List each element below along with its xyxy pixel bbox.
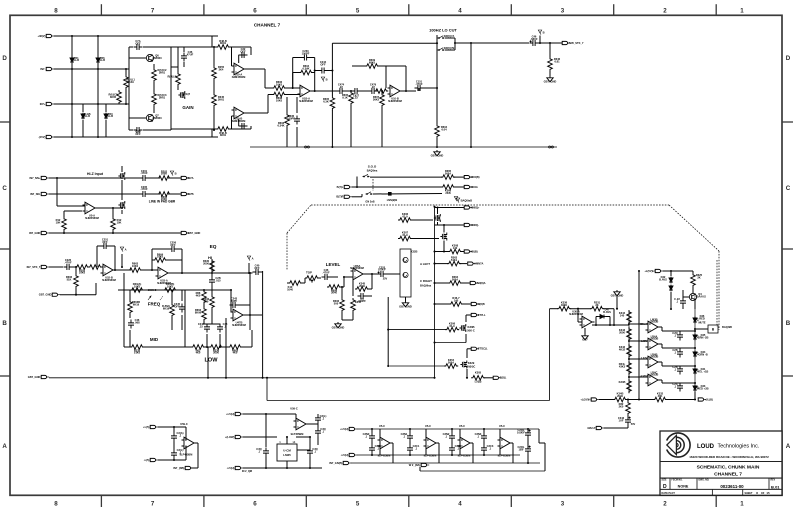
wire	[72, 266, 75, 268]
wire	[666, 399, 696, 401]
junction	[248, 272, 250, 274]
svg-text:GLB: GLB	[107, 114, 113, 118]
zone row labels right	[786, 55, 791, 450]
wire	[662, 382, 695, 384]
capacitor C236	[287, 114, 300, 125]
svg-text:6K19: 6K19	[133, 302, 140, 306]
svg-text:4K0: 4K0	[196, 293, 201, 297]
wire	[181, 315, 183, 330]
svg-text:10K0: 10K0	[276, 99, 283, 103]
wire	[436, 88, 438, 124]
capacitor C233	[301, 49, 310, 60]
wire	[472, 443, 474, 463]
svg-text:NJM4580M: NJM4580M	[569, 312, 583, 316]
wire	[411, 238, 439, 240]
svg-text:30PF: 30PF	[231, 299, 238, 303]
op-amp U10-A	[232, 63, 247, 79]
ground	[399, 301, 412, 309]
resistor K10	[287, 281, 302, 292]
wire	[243, 467, 322, 469]
svg-text:+(LOW): +(LOW)	[225, 435, 235, 439]
wire	[244, 68, 249, 70]
switch SOLO A	[363, 174, 370, 177]
wire	[185, 446, 187, 460]
svg-text:LM35: LM35	[283, 453, 291, 457]
connector IN7A	[181, 176, 193, 180]
net flag	[454, 197, 457, 202]
svg-text:2KB: 2KB	[445, 191, 450, 195]
wire	[249, 273, 251, 330]
capacitor C226	[64, 258, 73, 270]
wire	[129, 330, 131, 347]
capacitor C251	[101, 238, 110, 249]
title block fields	[662, 480, 781, 495]
junction	[249, 272, 251, 274]
wire	[679, 348, 681, 349]
connector IN7_STK_7	[27, 265, 50, 269]
svg-text:68K0: 68K0	[369, 60, 376, 64]
wire	[461, 282, 470, 284]
svg-text:.015: .015	[215, 278, 221, 282]
wire	[470, 442, 473, 444]
wire	[596, 316, 599, 318]
wire	[616, 296, 618, 309]
capacitor C3C0	[369, 444, 382, 454]
wire	[387, 297, 389, 366]
resistor R(U)L1	[124, 75, 136, 89]
wire	[670, 299, 672, 309]
wire	[152, 259, 154, 261]
wire	[310, 90, 338, 92]
junction	[309, 436, 311, 438]
wire	[249, 68, 265, 70]
wire	[101, 266, 103, 268]
diode D42	[659, 275, 673, 283]
junction	[114, 269, 116, 271]
svg-text:IN7_NN+: IN7_NN+	[30, 176, 41, 180]
svg-text:3K61: 3K61	[218, 97, 225, 101]
capacitor C3N1	[401, 432, 413, 442]
wire	[152, 248, 169, 250]
svg-text:GB7_GND: GB7_GND	[332, 326, 345, 330]
wire	[438, 443, 440, 463]
junction	[97, 103, 99, 105]
svg-text:EQ: EQ	[210, 244, 217, 250]
svg-text:OFF: OFF	[174, 304, 180, 308]
wire	[287, 282, 288, 284]
wire	[285, 94, 300, 96]
junction	[71, 103, 73, 105]
junction	[97, 68, 99, 70]
svg-text:+L(5V)H: +L(5V)H	[644, 269, 654, 273]
wire	[230, 128, 251, 130]
svg-text:OFF: OFF	[135, 42, 141, 46]
wire	[241, 346, 252, 348]
svg-text:LM33B: LM33B	[650, 337, 659, 341]
regulator U-CM LM35	[277, 441, 297, 461]
wire	[293, 57, 301, 59]
svg-text:GB7: GB7	[582, 338, 588, 342]
wire	[267, 95, 269, 114]
wire	[527, 428, 529, 431]
wire	[367, 295, 373, 297]
svg-text:1BV: 1BV	[518, 447, 523, 451]
wire	[148, 177, 160, 179]
wire	[177, 86, 179, 90]
resistor R330	[203, 259, 214, 273]
transistor	[459, 324, 465, 332]
svg-text:10K0: 10K0	[157, 255, 164, 259]
svg-text:U59-C: U59-C	[290, 407, 298, 411]
svg-text:N5(B): N5(B)	[471, 249, 478, 253]
svg-text:6: 6	[253, 500, 257, 507]
junction	[694, 347, 696, 349]
wire	[319, 277, 321, 279]
junction	[206, 346, 208, 348]
junction	[470, 146, 472, 148]
resistor R364	[448, 275, 462, 285]
capacitor C205	[140, 185, 149, 197]
ground	[431, 150, 444, 158]
wire	[123, 273, 125, 290]
wire	[694, 301, 696, 309]
svg-text:NJM4580M: NJM4580M	[388, 99, 402, 103]
op-amp LM3B	[646, 317, 661, 332]
diode D53	[104, 112, 113, 120]
wire	[185, 427, 187, 440]
junction	[213, 46, 215, 48]
wire	[306, 423, 318, 425]
title block frame	[660, 431, 782, 495]
resistor K306	[445, 322, 459, 332]
wire	[315, 70, 319, 72]
svg-text:1040: 1040	[287, 287, 293, 291]
svg-text:GB7_GND: GB7_GND	[28, 375, 41, 379]
svg-text:7: 7	[151, 500, 155, 507]
transistor	[434, 214, 440, 222]
wire	[287, 205, 311, 233]
connector GB7_GND	[39, 293, 61, 297]
svg-text:6.3K: 6.3K	[323, 99, 329, 103]
junction	[436, 42, 438, 44]
capacitor C3(A)	[171, 431, 184, 442]
wire	[293, 72, 299, 74]
wire	[230, 290, 232, 303]
junction	[405, 90, 407, 92]
wire	[471, 377, 473, 379]
zone column labels top	[54, 8, 744, 15]
wire	[71, 36, 73, 137]
svg-text:9LP455BM: 9LP455BM	[378, 455, 391, 458]
transistor Q(G)7	[178, 91, 190, 99]
svg-text:B: B	[543, 30, 545, 34]
resistor K345	[355, 282, 369, 292]
diode D45	[693, 333, 708, 340]
svg-text:GRN -B: GRN -B	[698, 352, 707, 356]
resistor K366	[441, 185, 455, 195]
svg-text:GB7_GND: GB7_GND	[399, 305, 412, 309]
svg-text:U5-C: U5-C	[459, 424, 465, 428]
svg-text:RED: RED	[699, 316, 705, 320]
resistor R68	[196, 290, 207, 304]
wire	[285, 87, 300, 89]
wire	[219, 334, 221, 347]
connector NN4(B)	[464, 175, 479, 179]
capacitor C43	[217, 322, 228, 333]
connector ST7(C)L	[471, 347, 488, 351]
wire	[168, 193, 181, 195]
wire	[592, 324, 629, 326]
wire	[143, 129, 171, 131]
wire	[238, 119, 240, 126]
svg-text:SIZE: SIZE	[662, 480, 667, 482]
wire	[112, 231, 114, 233]
connector +2L(B)	[698, 397, 713, 401]
wire output bus	[434, 207, 436, 378]
svg-text:10K: 10K	[117, 220, 122, 224]
wire	[211, 129, 213, 137]
resistor K332	[653, 392, 667, 402]
junction	[341, 286, 343, 288]
wire	[121, 254, 123, 267]
wire	[243, 314, 262, 316]
svg-text:AN5_STK_7: AN5_STK_7	[569, 41, 584, 45]
wire	[125, 89, 127, 104]
junction	[173, 426, 175, 428]
svg-text:Technologies Inc.: Technologies Inc.	[718, 444, 760, 450]
wire	[454, 186, 464, 188]
connector IN7_NN-	[30, 192, 49, 196]
connector IN7_GND	[29, 231, 49, 235]
svg-text:LNN(B)N: LNN(B)N	[387, 199, 398, 202]
svg-text:N(8)B: N(8)B	[478, 302, 485, 306]
wire	[692, 287, 694, 293]
wire	[423, 87, 437, 89]
svg-text:51K0: 51K0	[134, 351, 141, 355]
wire	[96, 246, 98, 267]
resistor R663	[228, 345, 242, 355]
wire	[262, 271, 263, 273]
op-amp U5-C	[378, 424, 393, 449]
wire	[286, 233, 288, 270]
wire	[207, 347, 209, 378]
svg-text:+L(5): +L(5)	[143, 425, 149, 429]
transistor	[118, 172, 124, 180]
op-amp U34A	[646, 334, 661, 349]
resistor	[374, 89, 388, 94]
connector C(8)L	[493, 376, 507, 380]
capacitor C3(L)	[171, 448, 183, 459]
diode D41	[693, 367, 708, 374]
svg-text:100UF: 100UF	[378, 268, 386, 272]
svg-text:IN7_NN-: IN7_NN-	[30, 192, 40, 196]
wire	[355, 288, 356, 290]
transistor	[460, 361, 466, 369]
svg-text:D: D	[786, 55, 791, 62]
resistor K305	[471, 370, 485, 380]
resistor R664	[153, 252, 167, 262]
wire	[230, 303, 232, 312]
wire	[200, 272, 253, 274]
svg-text:1: 1	[740, 500, 744, 507]
svg-text:+48(V): +48(V)	[37, 34, 45, 38]
connector ST7LL	[471, 313, 486, 317]
svg-text:51K: 51K	[67, 277, 72, 281]
zone tick marks top	[101, 4, 716, 15]
capacitor C5	[358, 293, 367, 303]
svg-text:8: 8	[54, 8, 58, 15]
wire	[297, 449, 310, 451]
resistor R335	[130, 345, 144, 355]
svg-text:K305: K305	[475, 370, 482, 374]
wire	[400, 90, 416, 92]
wire	[54, 68, 129, 70]
resistor R255	[212, 65, 225, 80]
junction	[436, 206, 438, 208]
wire	[211, 36, 213, 47]
op-amp U1B-A	[298, 85, 314, 103]
wire	[379, 65, 406, 67]
wire	[153, 82, 155, 92]
svg-text:.22: .22	[339, 85, 343, 89]
svg-text:U5-C: U5-C	[379, 424, 385, 428]
wire	[158, 459, 186, 461]
wire	[82, 104, 84, 112]
resistor R331	[590, 301, 604, 311]
wire	[451, 429, 453, 433]
wire	[629, 340, 646, 342]
svg-text:B: B	[712, 328, 715, 332]
resistor K343	[619, 327, 631, 341]
junction	[249, 314, 251, 316]
svg-text:B: B	[326, 77, 328, 81]
svg-text:C RIGHT: C RIGHT	[420, 279, 432, 283]
junction	[71, 35, 73, 37]
wire	[177, 47, 179, 72]
wire	[168, 177, 181, 179]
svg-text:NJM4580M: NJM4580M	[299, 99, 313, 103]
junction	[97, 35, 99, 37]
wire LED column	[694, 309, 696, 385]
capacitor C479	[369, 83, 378, 94]
wire	[342, 319, 353, 321]
svg-text:2-BAAUS: 2-BAAUS	[694, 294, 706, 298]
op-amp U10-B	[232, 107, 247, 123]
svg-text:2000: 2000	[203, 261, 209, 265]
wire	[670, 292, 672, 299]
wire	[361, 194, 363, 197]
svg-text:+2L(B): +2L(B)	[705, 397, 713, 401]
wire	[483, 442, 485, 445]
wire	[371, 454, 373, 456]
capacitor C477	[352, 88, 361, 100]
wire	[549, 43, 551, 57]
svg-text:B(7)L: B(7)L	[337, 185, 344, 189]
wire	[231, 47, 233, 66]
resistor R305	[75, 265, 89, 275]
junction	[97, 136, 99, 138]
svg-text:BAQ/9B: BAQ/9B	[722, 325, 732, 329]
wire	[63, 211, 65, 217]
transistor Q4	[689, 292, 706, 301]
wire	[538, 429, 540, 443]
junction	[331, 146, 333, 148]
junction	[309, 467, 311, 469]
wire	[550, 308, 559, 310]
wire	[599, 399, 614, 401]
capacitor C2QL	[517, 445, 531, 455]
capacitor C3Q	[307, 447, 318, 457]
wire	[148, 193, 160, 195]
wire	[435, 207, 465, 209]
svg-text:BAQ/9na: BAQ/9na	[420, 284, 432, 288]
wire	[129, 129, 133, 131]
diode D44	[693, 350, 708, 357]
wire	[381, 91, 383, 93]
drawing title	[697, 465, 760, 478]
svg-text:NN8Q+: NN8Q+	[471, 205, 480, 209]
connector -L5(H)	[341, 453, 357, 457]
resistor R202	[157, 169, 171, 180]
wire	[352, 186, 442, 188]
junction	[56, 177, 58, 179]
wire	[158, 426, 186, 428]
junction	[75, 294, 77, 296]
junction	[670, 308, 672, 310]
capacitor C46	[322, 268, 331, 280]
junction	[527, 428, 529, 430]
svg-text:6: 6	[253, 8, 257, 15]
wire	[204, 346, 210, 348]
svg-text:10K0: 10K0	[132, 264, 139, 268]
wire	[231, 116, 233, 129]
wire	[510, 442, 513, 444]
wire	[97, 36, 99, 137]
wire	[82, 120, 84, 137]
wire power rail bottom	[357, 454, 520, 456]
wire	[171, 46, 216, 48]
wire	[143, 346, 192, 348]
net flag	[170, 171, 176, 176]
capacitor C2B	[672, 365, 683, 375]
wire	[527, 455, 529, 464]
svg-text:L5(B): L5(B)	[475, 379, 482, 383]
resistor K342	[619, 344, 631, 358]
op-amp U5-A	[83, 202, 100, 220]
svg-text:D: D	[2, 55, 7, 62]
svg-text:100UF: 100UF	[517, 430, 525, 434]
wire	[268, 94, 273, 96]
svg-text:MID: MID	[150, 337, 159, 342]
wire	[121, 210, 123, 214]
wire	[512, 443, 514, 463]
capacitor C151	[415, 80, 424, 91]
svg-text:AMN7A: AMN7A	[474, 262, 483, 266]
wire	[170, 47, 172, 130]
svg-text:OF: OF	[761, 492, 765, 495]
junction	[125, 68, 127, 70]
diode D47	[599, 308, 612, 319]
wire	[371, 274, 373, 289]
capacitor C256	[169, 241, 178, 252]
svg-text:DATE PLOT: DATE PLOT	[662, 492, 676, 495]
wire	[166, 259, 182, 261]
wire	[460, 263, 467, 265]
wire	[314, 58, 316, 91]
wire sense box	[266, 378, 268, 401]
svg-text:.47UF: .47UF	[140, 187, 148, 191]
svg-text:HI-Z Input: HI-Z Input	[87, 172, 104, 176]
